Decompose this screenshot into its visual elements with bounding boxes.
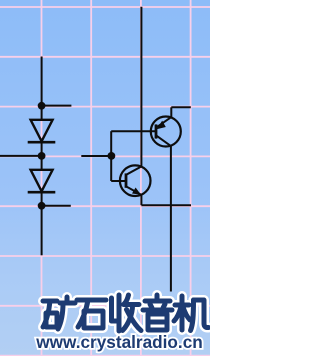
svg-text:www.crystalradio.cn: www.crystalradio.cn [35, 332, 203, 352]
